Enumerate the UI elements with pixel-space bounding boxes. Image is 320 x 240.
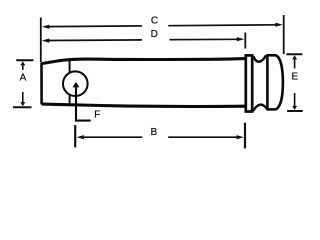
- extension line B right: [244, 123, 246, 149]
- pin left end face: [40, 63, 43, 105]
- head cap face: [266, 54, 269, 110]
- svg-text:E: E: [291, 71, 298, 82]
- svg-text:C: C: [151, 16, 158, 27]
- pin shaft bottom edge: [42, 104, 245, 106]
- head groove bottom: [253, 105, 267, 111]
- dimension E ticks: [286, 54, 302, 111]
- leader F arrowhead: [73, 82, 80, 88]
- extension line right C: [283, 15, 285, 54]
- dimension A arrows: [22, 64, 24, 70]
- svg-text:D: D: [151, 29, 158, 40]
- extension line right D: [244, 33, 246, 49]
- head flange: [246, 55, 252, 111]
- chamfer separator line: [69, 59, 71, 104]
- leader F stem: [76, 87, 91, 121]
- head cap dome outline: [267, 55, 283, 109]
- extension line left (C/D datum): [40, 18, 42, 63]
- dimension E arrows: [294, 58, 296, 68]
- svg-text:B: B: [150, 127, 157, 138]
- svg-text:F: F: [94, 110, 100, 121]
- extension line B left: [74, 125, 76, 147]
- hole circle: [63, 71, 88, 96]
- head groove top: [253, 56, 266, 62]
- dimension D: [48, 39, 239, 40]
- dimension C: [48, 25, 277, 27]
- pin shaft top edge: [41, 59, 245, 64]
- dimension B: [82, 136, 239, 138]
- dimension A ticks: [13, 60, 34, 107]
- svg-text:A: A: [20, 73, 27, 84]
